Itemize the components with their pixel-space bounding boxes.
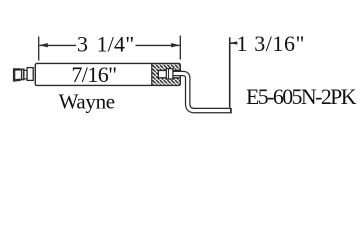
svg-text:E5-605N-2PK: E5-605N-2PK <box>246 85 357 109</box>
svg-text:3: 3 <box>77 31 88 56</box>
svg-text:1: 1 <box>237 31 248 56</box>
svg-text:3/16": 3/16" <box>254 31 304 56</box>
svg-text:Wayne: Wayne <box>59 89 116 113</box>
svg-text:7/16": 7/16" <box>71 62 117 87</box>
svg-text:1/4": 1/4" <box>97 31 135 56</box>
